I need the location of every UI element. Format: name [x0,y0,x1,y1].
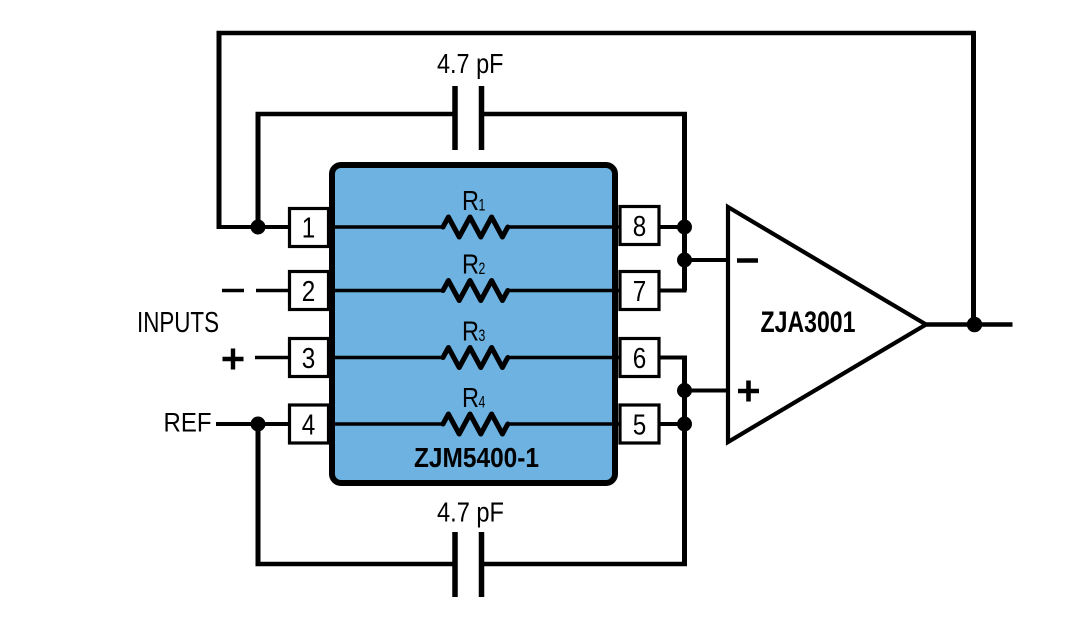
svg-text:6: 6 [633,343,647,375]
junction node pin5 [677,417,692,432]
svg-text:7: 7 [633,276,647,308]
wire pin 7 to junction [660,289,687,293]
op-amp non-inverting input plus symbol [738,381,759,402]
wire right upper vertical [682,112,687,291]
wire pin 3 stub [255,356,290,360]
capacitor C1 4.7 pF top [455,86,482,150]
resistor R4 [443,414,508,434]
pin 6 box [620,339,659,377]
svg-text:R: R [462,249,479,280]
wire right lower vertical [682,356,687,567]
svg-text:3: 3 [302,343,316,375]
svg-text:3: 3 [479,326,486,345]
junction node pin1 feedback [251,220,266,235]
wire pin 8 to junction [660,225,685,229]
svg-text:5: 5 [633,410,647,442]
op-amp U2 ZJA3001 [728,207,926,442]
svg-text:R: R [462,316,479,347]
svg-text:ZJA3001: ZJA3001 [761,306,856,339]
junction node output [967,317,982,332]
svg-text:2: 2 [479,259,486,278]
wire bottom capacitor right [484,562,687,567]
svg-text:4: 4 [479,393,486,412]
label inverting input minus sign [222,289,244,293]
wire op-amp inverting input [685,258,730,262]
pin 4 box [290,405,329,443]
wire pin 1 input [217,225,291,229]
wire REF input [216,422,290,426]
op-amp inverting input minus symbol [737,258,758,263]
label R2 [462,249,485,280]
pin 3 box [290,339,329,377]
capacitor C2 4.7 pF bottom [455,532,482,597]
resistor R3 [443,348,508,368]
resistor R2 [443,281,508,301]
svg-text:R: R [462,382,479,413]
wire R1 row [328,225,619,229]
wire R3 row [328,356,619,360]
svg-text:ZJM5400-1: ZJM5400-1 [414,442,539,473]
wire left lower vertical to bottom capacitor [256,424,261,566]
resistor network U1 ZJM5400-1 body [332,165,615,483]
wire top capacitor left [256,112,453,117]
wire op-amp output [926,322,1013,327]
pin 7 box [620,272,659,310]
svg-text:8: 8 [633,211,647,243]
wire R4 row [328,422,619,426]
wire left outer vertical [217,31,222,227]
svg-text:REF: REF [164,408,212,438]
svg-text:4.7 pF: 4.7 pF [437,497,504,528]
svg-text:INPUTS: INPUTS [137,307,219,339]
wire op-amp non-inverting input [685,389,730,393]
wire R2 row [328,289,619,293]
pin 5 box [620,405,659,443]
junction node REF [251,417,266,432]
resistor R1 [443,217,508,237]
label R3 [462,316,485,347]
label non-inverting input plus sign [223,349,244,370]
wire left inner vertical to top capacitor [256,112,261,227]
wire pin 6 to junction [660,356,687,360]
svg-text:4.7 pF: 4.7 pF [437,48,504,79]
svg-text:1: 1 [479,196,486,215]
wire right outer vertical [971,31,976,325]
wire pin 5 to junction [660,422,685,426]
svg-text:2: 2 [302,276,316,308]
label R1 [462,185,485,216]
wire pin 2 stub [256,289,290,293]
pin 2 box [290,272,329,310]
junction node non-inverting input [677,383,692,398]
svg-text:1: 1 [302,213,316,245]
svg-text:4: 4 [302,410,316,442]
label R4 [462,382,485,413]
wire feedback top horizontal [217,31,976,36]
pin 8 box [620,207,659,245]
junction node pin8 [677,220,692,235]
junction node inverting input [677,253,692,268]
svg-text:R: R [462,185,479,216]
pin 1 box [290,209,329,247]
wire bottom capacitor left [256,562,453,567]
wire top capacitor right [484,112,687,117]
